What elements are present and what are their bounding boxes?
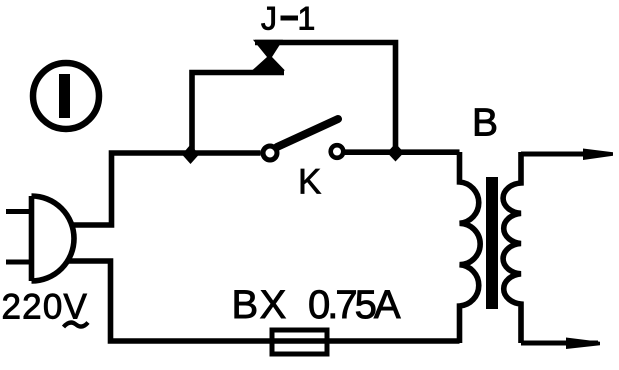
svg-text:BX: BX (232, 283, 288, 327)
svg-text:220V: 220V (2, 288, 89, 327)
svg-text:0.75A: 0.75A (308, 283, 401, 327)
svg-text:J: J (261, 1, 277, 37)
svg-text:B: B (472, 102, 498, 145)
svg-text:K: K (298, 163, 321, 202)
svg-text:1: 1 (298, 1, 316, 37)
